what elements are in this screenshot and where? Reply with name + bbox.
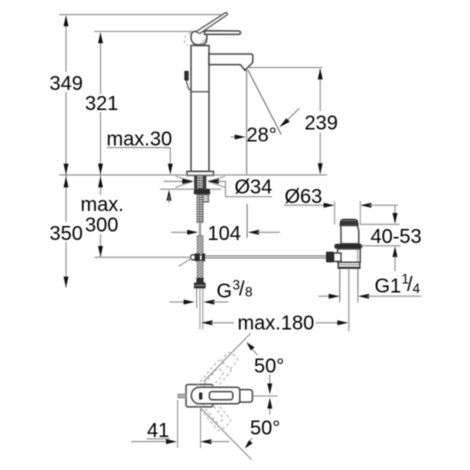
svg-text:Ø63: Ø63 [285,186,323,208]
aerator tip [244,69,247,71]
pull rod stub [178,394,186,398]
G3/8 hose collar [196,278,203,283]
plug stem [341,226,359,244]
41 extension lines [177,400,179,448]
Ø34 leader right + label shelf [208,179,219,184]
lever bar horizontal [205,31,241,35]
svg-text:Ø34: Ø34 [235,176,273,198]
rod tail diagonal [179,258,192,266]
arrow down 350 [64,277,69,288]
top view base plate [186,385,213,407]
faucet body column [191,46,209,172]
dim G3/8 [170,301,186,303]
lever arm diagonal [196,12,228,33]
countertop top line [59,174,327,176]
G3/8 nut [194,283,206,289]
dashed handle rotated down 50deg [188,384,232,432]
spray diagonal 28deg [248,70,281,135]
lower 50 leader arrow [249,439,252,443]
plain tube segment [199,223,201,236]
arrow down 349 at counter [64,164,69,175]
max30 underline [107,147,170,149]
axis line [253,395,278,397]
28 leader arrow [286,108,300,121]
arrow up max300 at counter [98,176,103,187]
bottom flange [338,262,360,268]
dim line 349/350 x66 [65,16,67,72]
swing diagonal upper [204,333,251,381]
svg-text:104: 104 [208,223,241,245]
svg-text:40-53: 40-53 [371,226,422,248]
base plate [187,171,214,175]
dashed handle rotated up 50deg [188,350,240,407]
dim line 321/max300 x100.5 [100,33,102,94]
svg-text:max.180: max.180 [238,312,315,334]
svg-text:max.: max. [81,194,124,216]
pop-up rod ball joint [191,255,196,260]
swing diagonal lower [201,408,252,459]
svg-text:321: 321 [85,93,118,115]
drain body [338,249,361,262]
svg-text:239: 239 [305,113,338,135]
rod knob [326,252,334,263]
aerator extension line upper [246,69,248,174]
body joint line [191,91,208,93]
tailpipe walls [339,269,341,301]
ref line top of body (321) [94,31,193,33]
lever swing dashed arc [184,33,190,46]
upper hose braid [197,236,203,283]
arrow up 321 [98,32,103,43]
handle cutout [209,392,232,400]
dim 40-53 [360,223,400,225]
shank through counter: side sleeves [194,175,197,188]
rod socket [334,253,341,261]
svg-text:4: 4 [413,281,421,296]
aerator extension line lower [246,204,248,238]
50deg vertical double arrow [269,375,271,384]
pivot notch [199,392,202,399]
countertop bottom line [160,188,194,190]
Ø34 leader left [164,180,185,182]
plug cap [340,219,358,225]
G1 1/4 extension ticks [339,290,341,303]
svg-text:349: 349 [50,73,83,95]
spout arm [209,54,253,70]
hole hatch right [208,176,225,181]
lever handle housing [191,32,207,45]
threaded shank [197,194,203,222]
svg-text:50°: 50° [254,356,284,378]
svg-text:8: 8 [245,285,253,300]
supply hose short [196,289,198,309]
arrow up 350 at counter [64,176,69,187]
svg-text:G: G [217,281,233,303]
O-ring [334,244,362,249]
dim 104 [171,231,190,233]
svg-text:28°: 28° [247,125,277,147]
svg-text:350: 350 [50,223,83,245]
horizontal pop-up rod [205,255,326,257]
supply hose long [199,289,201,330]
dim max.180 [201,320,212,325]
dim 239 [248,67,323,69]
pull-rod knob [184,71,188,81]
Ø63 extension lines [334,201,336,225]
arrow down max300 [98,246,103,257]
max30 arrow up below counter [167,190,172,201]
spout stub [240,390,253,403]
svg-text:50°: 50° [250,418,280,440]
upper 50 leader arrow [252,349,258,355]
handle pill [191,387,240,404]
dim G1 1/4 [319,295,332,297]
pull-rod curve [187,81,192,91]
svg-text:G1: G1 [375,276,402,298]
arrow up 349 [64,15,69,26]
ref line max300 bottom [95,256,192,258]
shank through counter: thread [197,175,203,188]
max30 arrow down [168,164,173,175]
ref line top of lever (349) [59,14,222,16]
arrow down 321 at counter [98,164,103,175]
mounting nut [194,189,211,195]
28 arrow at vertical [231,136,237,138]
svg-text:300: 300 [85,215,118,237]
hole hatch left [175,176,193,181]
max30 leader vertical [169,148,171,163]
tailpipe centre line [348,269,350,331]
rod guide block [202,194,209,202]
